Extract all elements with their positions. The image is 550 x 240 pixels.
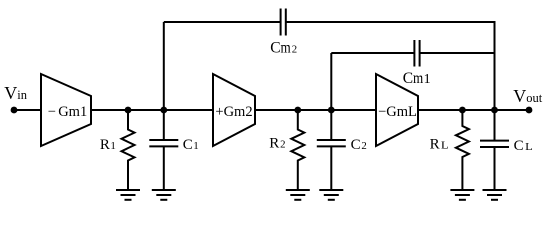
wire input to Gm1 [14,109,41,111]
svg-text:CL: CL [514,138,533,154]
capacitor C1 [149,110,178,190]
svg-text:−Gm1: −Gm1 [48,104,87,120]
svg-text:RL: RL [430,137,449,153]
ground under C1 [152,190,176,200]
resistor RL [456,110,469,190]
resistor R1 [122,110,135,190]
svg-text:Vout: Vout [513,86,543,106]
label -Gm1 [48,104,87,120]
resistor R2 [291,110,304,190]
op-amp U2 (Gm2) [213,74,255,146]
wire Gm2 output to GmL input [255,109,376,111]
node RL junction [459,107,466,114]
wire Cm1 net left [331,52,414,54]
label +Gm2 [215,104,252,120]
svg-text:Cm2: Cm2 [270,40,297,57]
node R1 junction [125,107,132,114]
node C1 / Cm2 junction [160,107,167,114]
label C1 [183,137,199,153]
terminal Vout [526,107,533,114]
label C2 [351,137,367,153]
label Cm2 [270,40,297,57]
svg-text:C1: C1 [183,137,199,153]
wire GmL output to Vout [418,109,529,111]
op-amp U1 (Gm1) [41,74,91,146]
op-amp U3 (GmL) [376,74,418,146]
label -GmL [378,104,417,120]
terminal Vin [11,107,18,114]
svg-text:C2: C2 [351,137,367,153]
wire Gm1 output to Gm2 input [91,109,213,111]
ground under RL [450,190,474,200]
wire top Cm2 net left [164,21,281,23]
capacitor Cm1 [414,40,419,67]
label R1 [100,137,116,153]
node R2 junction [294,107,301,114]
ground under R2 [286,190,310,200]
node C2 / Cm1 junction [328,107,335,114]
capacitor CL [480,110,509,190]
svg-text:Cm1: Cm1 [403,70,431,87]
wire riser node1 to top Cm2 net [163,22,165,110]
wire top Cm2 net right [286,22,495,110]
ground under R1 [116,190,140,200]
wire Cm1 net right [420,52,495,54]
label Vout [513,86,543,106]
label RL [430,137,449,153]
ground under C2 [319,190,343,200]
node CL / compensation junction [491,107,498,114]
label Vin [4,83,27,103]
capacitor Cm2 [281,9,286,36]
svg-text:−GmL: −GmL [378,104,417,120]
label R2 [269,136,285,152]
capacitor C2 [317,110,346,190]
label CL [514,138,533,154]
svg-text:R2: R2 [269,136,285,152]
ground under CL [483,190,507,200]
svg-text:Vin: Vin [4,83,27,103]
svg-text:+Gm2: +Gm2 [215,104,252,120]
label Cm1 [403,70,431,87]
wire riser node2 to Cm1 net [330,53,332,110]
svg-text:R1: R1 [100,137,116,153]
